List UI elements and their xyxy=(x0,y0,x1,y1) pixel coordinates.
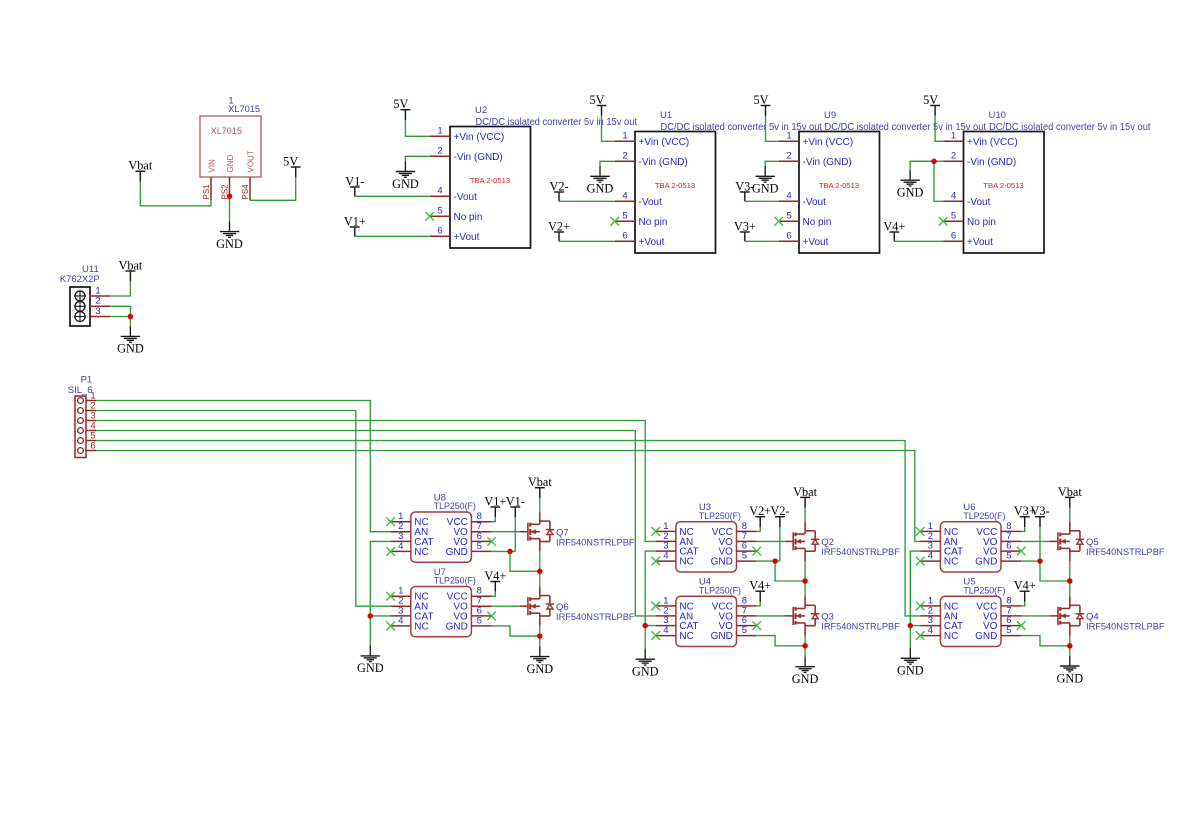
svg-text:TLP250(F): TLP250(F) xyxy=(699,585,741,596)
wire U6 CAT chain xyxy=(910,551,920,648)
svg-text:IRF540NSTRLPBF: IRF540NSTRLPBF xyxy=(556,612,635,622)
power flag 5V (U9) xyxy=(753,93,770,116)
svg-text:4: 4 xyxy=(398,615,403,626)
value DC/DC isolated converter 5v in 15v out (U1) xyxy=(661,122,823,133)
ground GND (Q6) xyxy=(526,646,553,676)
svg-text:+Vout: +Vout xyxy=(454,232,480,243)
svg-text:NC: NC xyxy=(944,557,958,568)
svg-text:+Vin (VCC): +Vin (VCC) xyxy=(967,137,1018,148)
svg-text:5: 5 xyxy=(742,625,747,636)
power flag V2+ xyxy=(749,504,771,527)
wire V4+ to U7 VCC xyxy=(492,592,496,596)
wire U3 VO to Q2 gate xyxy=(757,540,785,542)
no-connect X U6 pin6 xyxy=(1017,547,1026,556)
wire Q6 source rail xyxy=(539,626,541,647)
svg-text:4: 4 xyxy=(663,625,668,636)
reference U9 xyxy=(824,110,836,121)
ground GND (U9) xyxy=(752,166,779,196)
junction U10 pin2 xyxy=(931,159,937,165)
no-connect X U8 pin4 xyxy=(386,547,395,556)
wire U7 CAT xyxy=(370,615,390,617)
svg-text:GND: GND xyxy=(392,177,419,191)
svg-text:GND: GND xyxy=(446,547,468,558)
svg-text:GND: GND xyxy=(975,557,997,568)
wire Q2 source to Q3 drain xyxy=(804,561,806,596)
optocoupler driver U6 TLP250(F) xyxy=(920,521,1021,572)
wire 5V to U2 pin1 xyxy=(405,120,429,136)
power flag Vbat (XL7015) xyxy=(128,159,152,182)
svg-text:GND: GND xyxy=(216,237,243,251)
svg-text:5: 5 xyxy=(622,210,627,221)
svg-text:GND: GND xyxy=(752,182,779,196)
no-connect X U7 pin1 xyxy=(386,592,395,601)
svg-text:5: 5 xyxy=(786,210,791,221)
reference U11 xyxy=(82,264,99,275)
power flag V4+ (U7) xyxy=(484,569,506,592)
svg-text:PS4: PS4 xyxy=(241,184,250,200)
wire V4+ to U4 VCC xyxy=(757,602,761,606)
svg-text:+Vout: +Vout xyxy=(639,237,665,248)
wire 5V to U9 pin1 xyxy=(766,116,779,142)
junction Q4 source xyxy=(1067,643,1073,649)
svg-text:TBA 2-0513: TBA 2-0513 xyxy=(655,181,695,190)
power flag 5V (U10) xyxy=(923,93,940,116)
ground GND (U10) xyxy=(897,170,924,200)
no-connect X U3 pin1 xyxy=(651,527,660,536)
svg-text:-Vout: -Vout xyxy=(639,197,663,208)
svg-text:IRF540NSTRLPBF: IRF540NSTRLPBF xyxy=(1086,622,1165,632)
no-connect X U4 pin1 xyxy=(651,602,660,611)
power flag 5V (XL7015) xyxy=(283,154,300,177)
reference P1 xyxy=(81,375,93,386)
reference U2 xyxy=(475,105,487,116)
svg-text:TLP250(F): TLP250(F) xyxy=(434,576,476,587)
svg-text:No pin: No pin xyxy=(639,217,668,228)
wire Q5 source to Q4 drain xyxy=(1069,561,1071,596)
wire U7 VO to Q6 gate xyxy=(492,605,520,607)
value IRF540NSTRLPBF (Q5) xyxy=(1086,547,1165,557)
ground GND (CAT U8/U7) xyxy=(357,646,384,676)
value DC/DC isolated converter 5v in 15v out (U10) xyxy=(989,122,1151,133)
svg-text:VIN: VIN xyxy=(207,159,216,173)
no-connect X U8 pin1 xyxy=(386,517,395,526)
svg-text:5: 5 xyxy=(951,210,956,221)
svg-text:U9: U9 xyxy=(824,110,836,121)
ground GND (Q3) xyxy=(792,656,819,686)
svg-text:4: 4 xyxy=(437,185,442,196)
wire U2 pin2 to GND xyxy=(405,156,429,161)
power flag V1+ xyxy=(344,214,366,236)
svg-text:XL7015: XL7015 xyxy=(228,104,260,114)
svg-text:U10: U10 xyxy=(989,110,1006,121)
wire V1+ to U2 pin6 xyxy=(355,235,430,237)
wire V1- to Q7 source xyxy=(510,551,540,571)
wire U4 GND pin to Q3 source xyxy=(757,636,805,646)
svg-text:1: 1 xyxy=(622,130,627,141)
power flag Vbat (U11) xyxy=(118,258,142,281)
svg-text:TLP250(F): TLP250(F) xyxy=(434,501,476,512)
svg-text:DC/DC isolated converter 5v in: DC/DC isolated converter 5v in 15v out xyxy=(825,122,987,133)
wire U3 GND pin wire xyxy=(757,560,780,562)
wire U4 VO to Q3 gate xyxy=(757,615,785,617)
svg-text:GND: GND xyxy=(897,186,924,200)
svg-text:GND: GND xyxy=(632,665,659,679)
reference U8 xyxy=(434,493,446,504)
svg-text:5: 5 xyxy=(1006,551,1011,562)
no-connect X U5 pin6 xyxy=(1017,621,1026,630)
reference Q5 xyxy=(1086,537,1099,548)
junction Q7 source xyxy=(537,569,543,575)
svg-text:SIL_6: SIL_6 xyxy=(68,385,93,396)
svg-text:NC: NC xyxy=(944,631,958,642)
svg-text:+Vout: +Vout xyxy=(803,237,829,248)
wire P1.6 to U6 AN xyxy=(96,451,920,542)
reference U3 xyxy=(699,502,711,513)
ground GND (U2) xyxy=(392,161,419,191)
svg-text:4: 4 xyxy=(928,625,933,636)
svg-text:-Vout: -Vout xyxy=(967,197,991,208)
reference U1 xyxy=(660,110,672,121)
wire Q3 source rail xyxy=(804,636,806,657)
svg-text:NC: NC xyxy=(679,631,693,642)
power flag 5V (U2) xyxy=(393,97,410,120)
reference U5 xyxy=(963,577,975,588)
svg-text:GND: GND xyxy=(975,631,997,642)
wire U1 pin2 to GND xyxy=(600,161,615,166)
reference U6 xyxy=(963,502,975,513)
value K762X2P xyxy=(60,274,100,285)
svg-text:-Vin (GND): -Vin (GND) xyxy=(639,157,688,168)
wire U4 CAT xyxy=(645,625,656,627)
svg-text:DC/DC isolated converter 5v in: DC/DC isolated converter 5v in 15v out xyxy=(661,122,823,133)
power flag Vbat (Q7) xyxy=(528,475,552,498)
svg-text:+Vin (VCC): +Vin (VCC) xyxy=(454,132,505,143)
reference Q2 xyxy=(821,537,834,548)
junction U11 pins 2-3 xyxy=(128,314,134,320)
no-connect X U8 pin6 xyxy=(487,537,496,546)
wire P1.4 to U4 AN xyxy=(96,431,655,616)
power flag V3- xyxy=(1030,504,1049,527)
transistor Q5 IRF540NSTRLPBF xyxy=(1050,522,1085,561)
transistor Q2 IRF540NSTRLPBF xyxy=(785,522,820,561)
transistor Q6 IRF540NSTRLPBF xyxy=(520,587,555,626)
junction U5 CAT node xyxy=(908,623,914,629)
optocoupler driver U3 TLP250(F) xyxy=(656,521,757,572)
value IRF540NSTRLPBF (Q6) xyxy=(556,612,635,622)
no-connect X U9 pin5 xyxy=(774,217,783,226)
wire Vbat to XL7015 VIN xyxy=(140,182,211,206)
svg-text:DC/DC isolated converter 5v in: DC/DC isolated converter 5v in 15v out xyxy=(989,122,1151,133)
junction Q5 source xyxy=(1067,578,1073,584)
value IRF540NSTRLPBF (Q4) xyxy=(1086,622,1165,632)
wire U10 pin2 to GND xyxy=(910,161,943,170)
value TLP250(F) (U3) xyxy=(699,511,741,522)
junction Q3 source xyxy=(802,643,808,649)
no-connect X U1 pin5 xyxy=(610,217,619,226)
wire Vbat to Q2 drain xyxy=(804,508,806,522)
svg-text:TLP250(F): TLP250(F) xyxy=(963,585,1005,596)
svg-text:NC: NC xyxy=(414,547,428,558)
optocoupler driver U5 TLP250(F) xyxy=(920,595,1021,646)
wire U6 GND pin wire xyxy=(1021,560,1040,562)
wire U8 GND pin wire xyxy=(492,550,516,552)
power flag V4+ (U5) xyxy=(1014,579,1036,602)
value TLP250(F) (U8) xyxy=(434,501,476,512)
wire V2+ to U1 pin6 xyxy=(559,240,615,242)
svg-text:6: 6 xyxy=(90,441,95,452)
svg-text:GND: GND xyxy=(792,672,819,686)
svg-text:PS1: PS1 xyxy=(202,184,211,200)
wire U3 CAT chain xyxy=(645,551,656,649)
junction Q2 source xyxy=(802,578,808,584)
svg-text:4: 4 xyxy=(951,190,956,201)
value IRF540NSTRLPBF (Q2) xyxy=(821,547,900,557)
wire V3+ to U6 VCC xyxy=(1021,527,1024,531)
junction U4 CAT node xyxy=(642,623,648,629)
wire P1.2 to U7 AN xyxy=(96,411,390,607)
wire U10 pin2 to GND branch xyxy=(910,160,943,162)
value SIL_6 xyxy=(68,385,93,396)
transistor Q7 IRF540NSTRLPBF xyxy=(520,512,555,551)
svg-text:TLP250(F): TLP250(F) xyxy=(699,511,741,522)
wire U5 VO to Q4 gate xyxy=(1021,615,1049,617)
no-connect X U7 pin6 xyxy=(487,612,496,621)
svg-text:IRF540NSTRLPBF: IRF540NSTRLPBF xyxy=(556,537,635,547)
wire V4+ to U5 VCC xyxy=(1021,602,1024,606)
reference Q4 xyxy=(1086,612,1099,623)
svg-text:No pin: No pin xyxy=(803,217,832,228)
wire V2+ to U3 VCC xyxy=(757,527,761,531)
wire U5 GND pin to Q4 source xyxy=(1021,636,1070,646)
optocoupler driver U7 TLP250(F) xyxy=(391,586,492,637)
value IRF540NSTRLPBF (Q7) xyxy=(556,537,635,547)
svg-text:2: 2 xyxy=(437,145,442,156)
ground GND (CAT U3/U4) xyxy=(632,649,659,679)
svg-text:1: 1 xyxy=(437,125,442,136)
wire Vbat to U11 pin1 xyxy=(110,281,130,296)
reference U10 xyxy=(989,110,1006,121)
wire V2- to U1 pin4 xyxy=(559,200,615,202)
svg-text:XL7015: XL7015 xyxy=(211,126,242,136)
svg-text:NC: NC xyxy=(679,557,693,568)
no-connect X U5 pin1 xyxy=(916,602,925,611)
wire U11 pin2 down xyxy=(110,306,130,316)
wire Q4 source rail xyxy=(1069,636,1071,656)
power flag V3+ xyxy=(1014,504,1036,527)
svg-text:5: 5 xyxy=(477,541,482,552)
wire V2- to Q2 source xyxy=(775,561,805,581)
power flag V2+ xyxy=(548,219,570,241)
svg-text:TBA 2-0513: TBA 2-0513 xyxy=(470,176,510,185)
svg-text:5: 5 xyxy=(742,551,747,562)
svg-text:No pin: No pin xyxy=(967,217,996,228)
svg-text:1: 1 xyxy=(786,130,791,141)
svg-text:4: 4 xyxy=(663,551,668,562)
wire U11 to ground xyxy=(129,317,131,327)
svg-text:IRF540NSTRLPBF: IRF540NSTRLPBF xyxy=(1086,547,1165,557)
wire V1+ to U8 VCC xyxy=(492,517,496,521)
DC/DC converter U9 TBA 2-0513 xyxy=(779,130,880,253)
svg-text:IRF540NSTRLPBF: IRF540NSTRLPBF xyxy=(821,547,900,557)
svg-text:2: 2 xyxy=(951,150,956,161)
no-connect X U2 pin5 xyxy=(425,212,434,221)
wire U8 VO to Q7 gate xyxy=(492,531,520,533)
svg-text:GND: GND xyxy=(897,664,924,678)
svg-text:4: 4 xyxy=(928,551,933,562)
power flag V1- xyxy=(345,174,364,196)
ground GND (Q4) xyxy=(1056,656,1083,686)
value TLP250(F) (U5) xyxy=(963,585,1005,596)
wire XL7015 GND pin to ground xyxy=(229,196,231,221)
svg-text:2: 2 xyxy=(622,150,627,161)
svg-text:3: 3 xyxy=(95,306,100,317)
svg-text:6: 6 xyxy=(622,230,627,241)
wire U11 pin3 xyxy=(110,316,130,318)
wire P1.5 to U5 AN xyxy=(96,441,920,616)
svg-text:4: 4 xyxy=(622,190,627,201)
reference Q3 xyxy=(821,612,834,623)
wire Q7 source to Q6 drain xyxy=(539,551,541,586)
power flag V1+ xyxy=(484,494,506,517)
transistor Q4 IRF540NSTRLPBF xyxy=(1050,596,1085,635)
wire V1- down xyxy=(514,517,516,551)
value DC/DC isolated converter 5v in 15v out (U2) xyxy=(476,117,638,128)
value DC/DC isolated converter 5v in 15v out (U9) xyxy=(825,122,987,133)
transistor Q3 IRF540NSTRLPBF xyxy=(785,596,820,635)
svg-text:2: 2 xyxy=(786,150,791,161)
wire 5V to U10 pin1 xyxy=(935,116,943,142)
no-connect X U3 pin6 xyxy=(752,547,761,556)
DC/DC converter U10 TBA 2-0513 xyxy=(943,130,1044,253)
value IRF540NSTRLPBF (Q3) xyxy=(821,622,900,632)
svg-text:TBA 2-0513: TBA 2-0513 xyxy=(983,181,1023,190)
svg-text:DC/DC isolated converter 5v in: DC/DC isolated converter 5v in 15v out xyxy=(476,117,638,128)
wire V3+ to U9 pin6 xyxy=(745,240,779,242)
wire U8 CAT chain xyxy=(370,541,390,645)
no-connect X U3 pin4 xyxy=(651,557,660,566)
power flag V1- xyxy=(506,494,525,517)
svg-text:-Vout: -Vout xyxy=(803,197,827,208)
DC/DC converter U2 TBA 2-0513 xyxy=(430,125,531,248)
svg-text:-Vin (GND): -Vin (GND) xyxy=(967,157,1016,168)
junction V2- node xyxy=(772,558,778,564)
optocoupler driver U8 TLP250(F) xyxy=(391,511,492,562)
power flag V2- xyxy=(770,504,789,527)
wire U10 pin2 to pin4 xyxy=(934,161,943,201)
wire XL7015 VOUT to 5V xyxy=(250,177,296,200)
optocoupler driver U4 TLP250(F) xyxy=(656,595,757,646)
wire V4+ to U10 pin6 xyxy=(894,240,943,242)
svg-text:5: 5 xyxy=(1006,625,1011,636)
reference U4 xyxy=(699,577,711,588)
svg-text:GND: GND xyxy=(711,557,733,568)
svg-text:1: 1 xyxy=(951,130,956,141)
power flag V2- xyxy=(549,179,568,201)
power flag V3- xyxy=(735,179,754,201)
wire U9 pin2 to GND xyxy=(765,161,779,166)
svg-text:+Vout: +Vout xyxy=(967,237,993,248)
power flag V3+ xyxy=(734,219,756,241)
junction V1- node xyxy=(507,549,513,555)
svg-text:6: 6 xyxy=(786,230,791,241)
svg-text:TLP250(F): TLP250(F) xyxy=(963,511,1005,522)
reference Q7 xyxy=(556,528,569,539)
wire V3- to Q5 source xyxy=(1040,561,1070,581)
svg-text:P1: P1 xyxy=(81,375,93,386)
no-connect X U10 pin5 xyxy=(939,217,948,226)
ground GND (CAT U6/U5) xyxy=(897,648,924,678)
power flag V4+ (U4) xyxy=(749,579,771,602)
svg-text:GND: GND xyxy=(357,661,384,675)
wire Vbat to Q7 drain xyxy=(539,498,541,512)
connector P1 SIL_6 xyxy=(75,391,96,458)
svg-text:GND: GND xyxy=(1056,671,1083,685)
wire U6 VO to Q5 gate xyxy=(1021,540,1049,542)
svg-text:K762X2P: K762X2P xyxy=(60,274,100,285)
no-connect X U6 pin1 xyxy=(916,527,925,536)
svg-text:-Vin (GND): -Vin (GND) xyxy=(454,152,503,163)
no-connect X U7 pin4 xyxy=(386,622,395,631)
value TLP250(F) (U6) xyxy=(963,511,1005,522)
svg-text:-Vout: -Vout xyxy=(454,192,478,203)
svg-text:IRF540NSTRLPBF: IRF540NSTRLPBF xyxy=(821,622,900,632)
power flag 5V (U1) xyxy=(589,93,606,116)
ground GND (U11) xyxy=(117,326,144,356)
svg-text:4: 4 xyxy=(398,541,403,552)
reference 1 (XL7015) xyxy=(228,95,233,106)
regulator 1 XL7015 xyxy=(200,116,261,200)
junction V3- node xyxy=(1037,558,1043,564)
junction U7 CAT node xyxy=(368,613,374,619)
value TLP250(F) (U4) xyxy=(699,585,741,596)
connector U11 K762X2P xyxy=(70,285,110,326)
ground GND (XL7015) xyxy=(216,221,243,251)
reference Q6 xyxy=(556,602,569,613)
wire Vbat to Q5 drain xyxy=(1069,508,1071,522)
no-connect X U4 pin4 xyxy=(651,631,660,640)
wire V2- down xyxy=(779,527,781,561)
value XL7015 xyxy=(228,104,260,114)
svg-text:GND: GND xyxy=(587,182,614,196)
value TLP250(F) (U7) xyxy=(434,576,476,587)
junction XL7015 GND pin xyxy=(227,193,233,199)
svg-text:No pin: No pin xyxy=(454,212,483,223)
svg-text:GND: GND xyxy=(711,631,733,642)
svg-text:6: 6 xyxy=(437,225,442,236)
svg-text:TBA 2-0513: TBA 2-0513 xyxy=(819,181,859,190)
svg-text:GND: GND xyxy=(446,621,468,632)
power flag Vbat (Q5) xyxy=(1058,485,1082,508)
reference U7 xyxy=(434,567,446,578)
wire V3- down xyxy=(1039,527,1041,561)
svg-text:6: 6 xyxy=(951,230,956,241)
wire U5 CAT xyxy=(910,625,920,627)
power flag V4+ xyxy=(883,219,905,241)
svg-text:GND: GND xyxy=(117,342,144,356)
no-connect X U5 pin4 xyxy=(916,631,925,640)
wire U7 GND pin to Q6 source xyxy=(492,626,540,636)
svg-text:U2: U2 xyxy=(475,105,487,116)
svg-text:GND: GND xyxy=(526,662,553,676)
svg-text:+Vin (VCC): +Vin (VCC) xyxy=(803,137,854,148)
wire V1- to U2 pin4 xyxy=(355,195,430,197)
junction Q6 source xyxy=(537,633,543,639)
wire P1.1 to U8 AN xyxy=(96,401,390,532)
svg-text:U1: U1 xyxy=(660,110,672,121)
svg-text:5: 5 xyxy=(437,205,442,216)
svg-text:4: 4 xyxy=(786,190,791,201)
svg-text:+Vin (VCC): +Vin (VCC) xyxy=(639,137,690,148)
